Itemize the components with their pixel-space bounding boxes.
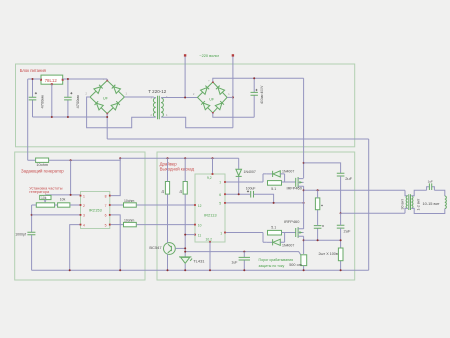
transistor Q3 BC547 circle: [164, 243, 176, 255]
transformer T1 core: [158, 96, 160, 120]
wire midpoint to transformer return: [341, 212, 405, 214]
node junction D1 on pin6 wire: [238, 193, 240, 195]
svg-text:78L12: 78L12: [45, 78, 58, 83]
svg-text:1: 1: [83, 194, 85, 198]
capacitor C1 4700мк plates: [29, 97, 37, 100]
svg-text:Задающий генератор: Задающий генератор: [21, 169, 64, 174]
svg-text:5: 5: [105, 223, 107, 227]
terminal X1 220V: [184, 54, 186, 56]
wire B1 AC2 to secondary top: [124, 96, 153, 98]
wire C7 bottom to midpoint: [340, 176, 342, 213]
transformer T1 pin marks: [151, 96, 169, 117]
node junction pin11 tap: [184, 234, 186, 236]
node junction gnd 78L12: [51, 116, 53, 118]
wire +310V drop to top MOSFET drain: [303, 78, 305, 178]
wire Q3 base to TL431: [175, 247, 185, 249]
node junction gnd Q3: [167, 269, 169, 271]
node junction C9 tap: [243, 251, 245, 253]
wire U2 pin6 to bootstrap cap: [226, 193, 250, 195]
svg-text:Выходной каскад: Выходной каскад: [160, 166, 195, 171]
diode D1 1N4007 vertical: [238, 158, 240, 194]
U1 pin pads left: [80, 195, 82, 197]
R10 plus tick: [321, 205, 322, 206]
transformer T1 primary winding: [161, 98, 163, 117]
capacitor C6 snubber plates: [314, 226, 322, 229]
capacitor C8 2uF bottom plates: [337, 225, 345, 228]
wire B2 plus stub and +310V rail: [213, 78, 304, 82]
diode D3 1N4007 horizontal: [267, 241, 273, 243]
wire 12V rail y79: [28, 78, 108, 80]
capacitor C7 2uF top plates: [337, 173, 345, 176]
node junction pin3 tap: [31, 214, 33, 216]
wire secondary top pin: [154, 97, 156, 99]
op-amp U2 IR2113 box: [195, 174, 225, 242]
svg-text:1N4007: 1N4007: [282, 243, 294, 247]
node junction C2 top: [67, 78, 69, 80]
svg-text:TL431: TL431: [193, 258, 205, 263]
svg-text:1uF: 1uF: [231, 260, 237, 264]
wire D2 anode stub: [280, 174, 284, 182]
terminal X2 220V: [232, 54, 234, 56]
svg-text:2uF: 2uF: [344, 228, 351, 233]
svg-text:500 om: 500 om: [289, 263, 302, 267]
node top gate network left: [263, 174, 267, 182]
inductor L1 work coil 10-15 вит: [445, 196, 447, 209]
wire Q2 source down through pot: [303, 236, 305, 254]
bridge B2 corner pads: [212, 81, 214, 83]
svg-text:10ohm: 10ohm: [36, 163, 48, 167]
svg-text:Т 220-12: Т 220-12: [148, 89, 167, 94]
svg-text:2uF: 2uF: [345, 176, 352, 181]
node junction gnd pin4: [69, 269, 71, 271]
resistor R5 10ohm body: [124, 222, 137, 226]
node junction snubber cap link: [317, 239, 319, 241]
svg-text:2: 2: [83, 204, 85, 208]
svg-text:IRFP460: IRFP460: [284, 219, 300, 224]
wire rail y139: [107, 138, 369, 140]
transformer T1 secondary winding: [153, 98, 155, 117]
node junction 310V branch: [303, 162, 305, 164]
capacitor C2 plus mark: [70, 92, 72, 94]
node junction snubber bottom: [303, 239, 305, 241]
capacitor C1 4700мк leads: [32, 79, 34, 117]
svg-text:UF: UF: [209, 97, 215, 101]
wire R11 bottom to ground: [303, 266, 305, 271]
wire primary bottom pin jog to terminal2: [161, 117, 233, 128]
resistor R3 10k body: [58, 203, 70, 207]
wire pin4 loop: [70, 225, 81, 271]
bridge B1 diode top-left: [94, 84, 103, 93]
transformer T2 primary stub bottom: [405, 208, 408, 213]
capacitor C1 plus mark: [35, 92, 37, 94]
wire R6 leads: [167, 158, 169, 243]
node bottom gate network left: [263, 233, 267, 243]
capacitor C5 plus mark: [247, 190, 249, 192]
svg-text:IR2153: IR2153: [89, 207, 103, 212]
svg-text:10-15 вит: 10-15 вит: [423, 201, 440, 206]
node junction rail dropper1: [167, 157, 169, 159]
svg-text:10,2: 10,2: [206, 238, 213, 242]
U2 left pads: [194, 204, 196, 206]
transformer T2 primary stub top: [405, 190, 408, 196]
wire U2 pin5 Vs row: [226, 202, 304, 204]
wire switch node column: [303, 190, 305, 229]
svg-text:Блок питания: Блок питания: [20, 68, 46, 73]
wire T2 secondary top stub: [411, 190, 426, 196]
node junction rail pin8 riser: [119, 157, 121, 159]
wire R8 to gate Q1: [282, 181, 296, 183]
svg-text:IR2113: IR2113: [204, 213, 217, 218]
node junction gnd pin6: [119, 269, 121, 271]
wire 12V output drop x27.7: [27, 79, 29, 160]
wire Q3 collector: [167, 242, 169, 244]
svg-text:4: 4: [83, 223, 85, 227]
svg-text:8: 8: [105, 194, 107, 198]
svg-text:Порог срабатывания: Порог срабатывания: [259, 258, 294, 262]
potentiometer R11 500 om body: [301, 255, 307, 266]
wire C6 to R10: [317, 210, 319, 226]
wire U2 vcc riser: [212, 158, 214, 174]
capacitor C2 4700мк leads: [67, 79, 69, 117]
wire C5 right to Vs: [254, 194, 274, 203]
wire terminal1 down to primary top: [184, 57, 186, 98]
bridge B2 pin marks: [193, 80, 230, 112]
wire U1 pin8 riser: [111, 158, 121, 195]
svg-text:11: 11: [198, 234, 202, 238]
node junction snubber R tap: [317, 189, 319, 191]
svg-text:BC547: BC547: [149, 245, 162, 250]
svg-text:UF: UF: [103, 97, 109, 101]
wire terminal2 down to bridge AC2 and jog: [232, 57, 234, 128]
U2 right pads: [224, 181, 226, 183]
svg-text:3: 3: [83, 214, 85, 218]
transformer T2 primary winding: [406, 196, 408, 209]
wire pin2 row y205: [32, 204, 81, 206]
wire B1 AC1 jog to secondary bottom: [87, 97, 154, 128]
thyristor U3 TL431: [179, 256, 191, 258]
svg-text:7: 7: [219, 181, 221, 185]
transformer T2 core: [409, 194, 411, 210]
svg-text:10ohm: 10ohm: [124, 199, 135, 203]
wire R4 to U2 pin12: [136, 204, 195, 206]
node junction terminal2 bridge AC2: [232, 96, 234, 98]
U1 pin pads right: [109, 195, 111, 197]
wire U2 pin1 to bottom gate network: [226, 232, 263, 234]
wire U1 pin6 to ground: [111, 215, 121, 270]
oscillator block box (Задающий генератор): [15, 152, 145, 280]
svg-text:10ohm: 10ohm: [124, 219, 135, 223]
wire R10 top lead: [317, 190, 319, 198]
wire left drop x31.6: [31, 205, 33, 232]
bridge B2 diode top-left: [200, 85, 209, 94]
capacitor C9 1uF leads: [243, 252, 245, 271]
node junction snubber link / divider: [340, 239, 342, 241]
wire R5 to U2 pin10: [136, 224, 195, 226]
svg-text:400мк 400V: 400мк 400V: [260, 85, 264, 104]
capacitor C5 100uF plates: [251, 191, 254, 198]
capacitor C4 1000pf plates: [27, 232, 35, 235]
Q3 internals: [168, 244, 171, 252]
capacitor C3 plus mark: [255, 89, 257, 91]
svg-text:5: 5: [219, 202, 221, 206]
wire B1 plus stub: [106, 79, 108, 81]
svg-text:1N4007: 1N4007: [282, 170, 294, 174]
svg-text:10: 10: [198, 224, 202, 228]
svg-text:1k: 1k: [179, 190, 183, 194]
wire U2 bottom pin to ground: [209, 242, 211, 270]
node junction rail pin1 drop: [70, 159, 72, 161]
capacitor C9 1uF plates: [239, 257, 250, 260]
op-amp U1 IR2153 box: [81, 192, 110, 229]
bridge B2 diode top-right: [216, 85, 225, 94]
resistor R1 10ohm body: [36, 158, 49, 162]
svg-text:12: 12: [198, 204, 202, 208]
wire Q1 source to switch rail: [303, 186, 305, 190]
wire snubber bottom link: [304, 239, 341, 241]
bridge B1 corner pads: [106, 80, 108, 82]
wire U2 pin11 row: [185, 234, 195, 236]
wire C8 leads: [340, 213, 342, 248]
U2 top pad: [212, 173, 214, 175]
wire TL431 anode to ground: [184, 264, 186, 271]
potentiometer R2 10k label box: [40, 195, 51, 199]
svg-text:1N4007: 1N4007: [244, 170, 256, 174]
svg-text:7: 7: [105, 204, 107, 208]
capacitor C3 400мк plates: [251, 92, 258, 95]
wire ground rail y270.3: [32, 269, 369, 271]
wire threshold row to pot wiper: [185, 252, 302, 258]
node junction threshold tap: [184, 251, 186, 253]
resistor R12 bleeder body: [338, 248, 343, 261]
wire Q3 emitter to ground: [167, 254, 169, 270]
diode bridge B1 UF outline: [90, 81, 124, 114]
resistor R7 dropper body: [183, 182, 187, 195]
wire U2 pin7 to gate network: [226, 181, 263, 183]
diode bridge B2 UF outline: [198, 82, 228, 113]
resistor R10 snubber body: [315, 198, 319, 210]
node junction primary top / terminal1: [184, 97, 186, 99]
wire switch rail to output transformer: [304, 189, 405, 191]
node junction rail dropper2: [184, 157, 186, 159]
capacitor C10 plates: [429, 183, 431, 190]
node junction gnd C2: [67, 116, 69, 118]
bridge B2 diode bottom-right: [215, 101, 224, 110]
U2 bottom pad: [209, 241, 211, 243]
node junction switch column Vs: [303, 202, 305, 204]
wire pin3 row y214.9: [32, 214, 81, 216]
node junction switch rail: [303, 189, 305, 191]
svg-text:5.1: 5.1: [271, 226, 276, 230]
svg-text:IRFP460: IRFP460: [287, 186, 303, 191]
transistor Q2 IRFP460: [296, 227, 298, 238]
wire pin1 feed: [45, 160, 80, 195]
node junction gnd C9: [243, 269, 245, 271]
svg-text:4700мк: 4700мк: [75, 95, 80, 109]
wire secondary bottom pin: [154, 116, 156, 118]
wire R7 leads down to TL431: [184, 158, 186, 257]
node junction Vs: [273, 202, 275, 204]
resistor R8 5.1 body: [268, 181, 282, 186]
power supply block box (Блок питания): [16, 64, 355, 147]
svg-text:~220 вольт: ~220 вольт: [199, 53, 219, 58]
capacitor C2 4700мк plates: [64, 97, 72, 100]
svg-text:6: 6: [219, 193, 221, 197]
bridge B1 diode bottom-right: [111, 101, 120, 110]
node junction B1 minus / gnd rail: [106, 116, 108, 118]
svg-text:100uF: 100uF: [246, 186, 256, 190]
wire D3 anode stub: [280, 233, 284, 243]
wire 78L12 ground pin down: [51, 84, 53, 117]
node junction C1 top: [32, 78, 34, 80]
potentiometer R2 wiper arrow: [44, 195, 46, 201]
wire Vcc rail y160: [28, 158, 239, 160]
svg-text:4700мк: 4700мк: [39, 95, 44, 109]
node junction rail IC2 vcc riser: [212, 157, 214, 159]
wire U1 pin5 to R5: [111, 224, 124, 226]
bridge B1 pin marks: [86, 78, 128, 112]
svg-text:1uF: 1uF: [428, 180, 433, 184]
potentiometer R2 body: [36, 203, 54, 207]
bridge B1 diode bottom-left: [94, 101, 103, 110]
svg-text:1000pf: 1000pf: [15, 233, 26, 237]
svg-text:9,2: 9,2: [207, 176, 212, 180]
bridge B1 diode top-right: [111, 84, 120, 93]
svg-text:защиты по току: защиты по току: [259, 264, 285, 268]
svg-text:30 вит: 30 вит: [400, 199, 404, 210]
capacitor C3 400мк leads: [253, 78, 255, 117]
wire ground rail y117: [33, 116, 108, 118]
wire loop top right: [434, 190, 444, 196]
node junction divider midpoint: [340, 212, 342, 214]
svg-text:6: 6: [105, 214, 107, 218]
driver/output stage box (Драйвер Выходной каскад): [157, 152, 355, 280]
wire loop bottom: [411, 208, 444, 213]
svg-text:1k: 1k: [161, 190, 165, 194]
svg-text:10k: 10k: [60, 198, 66, 202]
node junction C3 top: [253, 77, 255, 79]
wire right drop x368.7: [368, 139, 370, 270]
C6 plus tick: [322, 225, 323, 226]
node junction gnd R12: [340, 269, 342, 271]
wire B2 minus row y117.2: [213, 113, 254, 117]
svg-text:генератора: генератора: [29, 190, 50, 194]
wire primary top pin to terminal1 and bridge B2: [161, 97, 198, 99]
svg-text:5.1: 5.1: [271, 187, 276, 191]
svg-text:2шт Х 100в: 2шт Х 100в: [319, 252, 338, 256]
node junction gnd TL431: [184, 269, 186, 271]
wire R9 to gate Q2: [282, 232, 296, 234]
svg-text:10k: 10k: [41, 196, 47, 200]
transformer T2 secondary winding: [411, 196, 413, 209]
bridge B2 diode bottom-left: [201, 101, 210, 110]
capacitor C10 resonant elbow: [427, 187, 435, 191]
wire B1 minus down to 310V rail: [106, 114, 108, 140]
wire B2 AC2 stub to terminal2: [227, 96, 233, 98]
node junction gnd R11: [303, 269, 305, 271]
wire U1 pin7 to R4: [111, 204, 124, 206]
svg-text:1-2 вит: 1-2 вит: [417, 198, 421, 210]
diode D2 1N4007 horizontal: [267, 173, 273, 175]
resistor R4 10ohm body: [124, 203, 137, 207]
node junction pin1 wire: [70, 194, 72, 196]
resistor R6 dropper body: [165, 182, 169, 195]
node junction gnd U2: [209, 269, 211, 271]
resistor R9 5.1 body: [268, 230, 282, 235]
wire branch to 2uF divider top: [304, 163, 341, 173]
svg-text:1: 1: [220, 231, 222, 235]
regulator U3 78L12: [41, 75, 63, 84]
transistor Q1 IRFP460: [296, 177, 298, 188]
node junction base TL431: [184, 247, 186, 249]
wire C4 bottom lead: [31, 235, 33, 270]
